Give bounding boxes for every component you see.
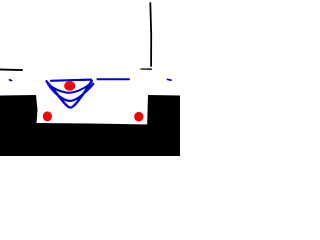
black region left block <box>0 95 38 130</box>
blue horizontal line left segment <box>51 80 91 81</box>
black vertical line right <box>149 3 152 66</box>
red dot left <box>43 111 52 121</box>
black dash right (near vertical line bottom) <box>141 68 152 70</box>
red pupil dot <box>64 81 75 91</box>
blue tick far right <box>168 78 172 81</box>
blue horizontal line right segment <box>98 78 130 80</box>
red dot right <box>134 112 143 122</box>
black region right block <box>147 95 180 130</box>
eye middle arc <box>48 84 93 101</box>
black region bottom band <box>0 123 180 156</box>
black dash top-left <box>0 69 22 72</box>
blue tick far left <box>10 79 12 82</box>
eye outer V curve <box>47 81 92 108</box>
eye inner shallow arc <box>50 82 92 93</box>
white paper background <box>0 0 180 156</box>
